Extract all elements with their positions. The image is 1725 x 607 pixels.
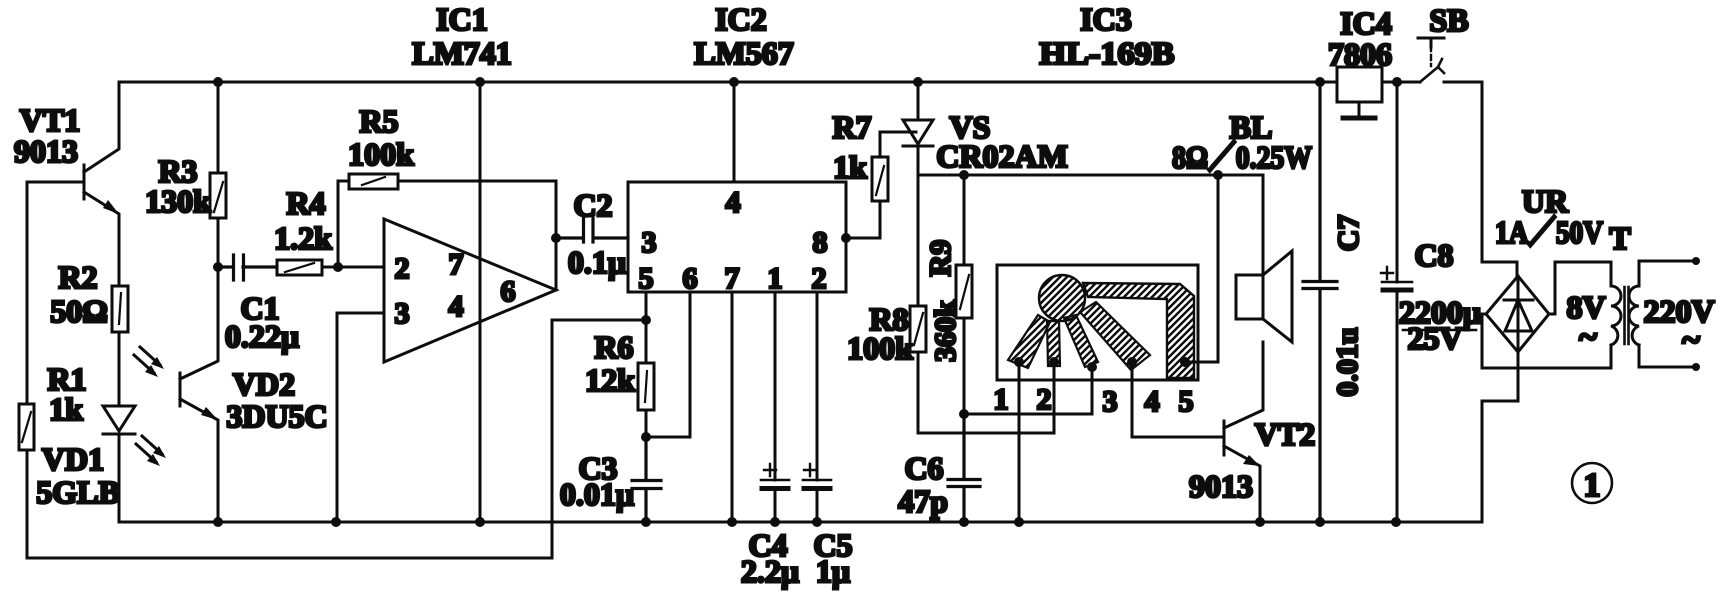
bridge rectifier UR bbox=[1486, 183, 1603, 352]
svg-text:4: 4 bbox=[726, 186, 741, 219]
wire pad5 to VS rail bbox=[1185, 175, 1218, 362]
resistor R2 bbox=[50, 259, 128, 332]
svg-text:R6: R6 bbox=[594, 329, 633, 365]
svg-text:1μ: 1μ bbox=[816, 553, 850, 589]
svg-text:C8: C8 bbox=[1414, 237, 1453, 273]
resistor R9 bbox=[924, 175, 972, 414]
svg-text:0.01μ: 0.01μ bbox=[560, 476, 634, 512]
svg-text:VD2: VD2 bbox=[233, 366, 295, 402]
svg-text:2.2μ: 2.2μ bbox=[741, 553, 799, 589]
svg-text:25V: 25V bbox=[1407, 320, 1462, 356]
node R6 bottom bbox=[641, 432, 651, 442]
svg-text:R2: R2 bbox=[58, 259, 97, 295]
svg-text:3DU5C: 3DU5C bbox=[226, 398, 327, 434]
wire SB to bridge bbox=[1482, 82, 1517, 276]
resistor R3 bbox=[145, 82, 226, 267]
resistor R4 bbox=[274, 185, 338, 275]
svg-text:8: 8 bbox=[813, 226, 828, 259]
capacitor C8 bbox=[1381, 82, 1481, 522]
svg-text:1A／50V: 1A／50V bbox=[1495, 214, 1603, 250]
wire IC2 pin8 bbox=[846, 237, 880, 240]
capacitor C5 bbox=[803, 292, 853, 589]
svg-text:HL-169B: HL-169B bbox=[1040, 35, 1175, 71]
bond pads bbox=[1014, 357, 1190, 372]
svg-text:9013: 9013 bbox=[1189, 468, 1253, 504]
svg-text:360k: 360k bbox=[929, 300, 962, 362]
svg-text:0.22μ: 0.22μ bbox=[225, 318, 299, 354]
svg-text:220V: 220V bbox=[1643, 293, 1714, 329]
svg-text:LM741: LM741 bbox=[412, 35, 512, 71]
resistor R7 bbox=[832, 109, 916, 238]
svg-text:T: T bbox=[1609, 220, 1630, 256]
phototransistor VD2 bbox=[180, 267, 328, 522]
speaker BL bbox=[1172, 109, 1312, 342]
svg-text:1k: 1k bbox=[833, 149, 867, 185]
capacitor C2 bbox=[556, 187, 628, 280]
svg-text:C7: C7 bbox=[1332, 215, 1365, 252]
svg-text:2: 2 bbox=[812, 262, 827, 295]
IC2 LM567 box bbox=[628, 1, 846, 295]
svg-text:3: 3 bbox=[1103, 385, 1118, 418]
light arrows from VD1 bbox=[136, 436, 166, 466]
node top rail junctions bbox=[213, 77, 1402, 87]
wire top rail bbox=[119, 81, 1482, 84]
svg-text:50Ω: 50Ω bbox=[50, 293, 108, 329]
svg-text:6: 6 bbox=[501, 275, 516, 308]
finger to pad1 bbox=[1008, 315, 1050, 368]
transistor VT2 bbox=[1189, 342, 1315, 522]
svg-text:R4: R4 bbox=[286, 185, 325, 221]
svg-text:0.1μ: 0.1μ bbox=[568, 244, 626, 280]
svg-text:LM567: LM567 bbox=[694, 35, 794, 71]
light arrows into VD2 bbox=[134, 347, 164, 377]
svg-text:~: ~ bbox=[1682, 322, 1700, 359]
svg-text:4: 4 bbox=[449, 290, 464, 323]
node R4 out bbox=[333, 262, 343, 272]
svg-text:IC1: IC1 bbox=[436, 1, 488, 37]
resistor R5 feedback bbox=[338, 103, 556, 290]
svg-text:SB: SB bbox=[1429, 2, 1468, 38]
svg-text:1: 1 bbox=[994, 383, 1009, 416]
svg-text:100k: 100k bbox=[847, 330, 913, 366]
svg-text:5GLB: 5GLB bbox=[36, 474, 120, 510]
node R3-C1 bbox=[213, 262, 223, 272]
finger to pad3 bbox=[1064, 315, 1098, 367]
svg-text:5: 5 bbox=[639, 262, 654, 295]
LED VD1 bbox=[36, 332, 135, 522]
wire left rail bbox=[27, 182, 552, 558]
switch SB bbox=[1418, 2, 1469, 82]
svg-text:~: ~ bbox=[1579, 319, 1597, 356]
primary winding 220V bbox=[1629, 286, 1639, 345]
svg-text:VD1: VD1 bbox=[42, 441, 104, 477]
svg-text:C6: C6 bbox=[904, 450, 943, 486]
op-amp U1 IC1 bbox=[337, 1, 556, 522]
wire IC2 pin5 bbox=[552, 292, 646, 320]
finger to pad2 bbox=[1047, 321, 1060, 366]
wire bottom ground rail bbox=[119, 521, 1482, 524]
transformer T bbox=[1566, 220, 1714, 371]
svg-text:1: 1 bbox=[768, 262, 783, 295]
capacitor C4 bbox=[741, 292, 799, 589]
wire IC2 pin7 bbox=[731, 292, 734, 522]
svg-text:130k: 130k bbox=[145, 183, 211, 219]
svg-text:R7: R7 bbox=[832, 109, 871, 145]
node bottom rail junctions bbox=[213, 517, 1401, 527]
core bbox=[1625, 287, 1629, 344]
capacitor C3 bbox=[560, 437, 661, 522]
wire bridge bottom to ground bbox=[1482, 352, 1518, 522]
wire IC2 pin6 bbox=[646, 292, 690, 437]
wire VS rail bbox=[918, 175, 1263, 275]
svg-text:R9: R9 bbox=[924, 240, 957, 277]
svg-text:8Ω／0.25W: 8Ω／0.25W bbox=[1172, 139, 1312, 175]
capacitor C7 bbox=[1303, 82, 1365, 522]
circled figure number 1 bbox=[1572, 463, 1612, 504]
capacitor C1 bbox=[218, 255, 299, 354]
svg-text:CR02AM: CR02AM bbox=[936, 138, 1068, 174]
svg-text:1.2k: 1.2k bbox=[274, 220, 332, 256]
svg-text:3: 3 bbox=[642, 226, 657, 259]
secondary winding 8V bbox=[1611, 286, 1621, 345]
svg-text:5: 5 bbox=[1179, 385, 1194, 418]
svg-text:9013: 9013 bbox=[14, 133, 78, 169]
svg-text:7806: 7806 bbox=[1328, 36, 1392, 72]
die circle bbox=[1039, 275, 1085, 321]
node op-amp output bbox=[551, 233, 561, 243]
wire bridge right to secondary top bbox=[1549, 262, 1611, 314]
svg-text:7: 7 bbox=[725, 262, 740, 295]
top arm and right column bbox=[1083, 283, 1194, 378]
resistor R6 bbox=[585, 320, 654, 437]
svg-text:IC3: IC3 bbox=[1080, 1, 1132, 37]
svg-text:7: 7 bbox=[449, 248, 464, 281]
node R9 bottom bbox=[959, 409, 969, 419]
svg-text:1k: 1k bbox=[49, 391, 83, 427]
svg-text:4: 4 bbox=[1145, 385, 1160, 418]
wire pad1 to ground bbox=[1018, 362, 1021, 522]
svg-text:IC2: IC2 bbox=[715, 1, 767, 37]
svg-text:12k: 12k bbox=[585, 362, 635, 398]
IC4 7806 regulator bbox=[1328, 5, 1392, 118]
svg-text:C2: C2 bbox=[573, 187, 612, 223]
svg-text:1: 1 bbox=[1584, 467, 1601, 504]
svg-text:100k: 100k bbox=[348, 136, 414, 172]
wire R9 to pad3 bbox=[964, 367, 1092, 414]
finger to pad4 bbox=[1080, 302, 1150, 370]
svg-text:6: 6 bbox=[683, 262, 698, 295]
wire pad4 to VT2 base bbox=[1132, 362, 1224, 437]
svg-text:47p: 47p bbox=[898, 483, 948, 519]
transistor VT1 bbox=[14, 82, 119, 286]
svg-text:2: 2 bbox=[395, 252, 410, 285]
svg-text:3: 3 bbox=[395, 297, 410, 330]
svg-text:0.01u: 0.01u bbox=[1331, 327, 1364, 396]
resistor R8 bbox=[847, 175, 1054, 433]
svg-text:2: 2 bbox=[1037, 383, 1052, 416]
IC3 HL-169B chip bbox=[994, 1, 1199, 418]
capacitor C6 bbox=[898, 414, 980, 522]
svg-text:VT2: VT2 bbox=[1255, 416, 1315, 452]
resistor R1 bbox=[19, 361, 87, 450]
svg-text:R5: R5 bbox=[359, 103, 398, 139]
diode VS (thyristor CR02AM) bbox=[903, 82, 1068, 175]
wire bridge left to secondary bottom bbox=[1482, 314, 1611, 368]
